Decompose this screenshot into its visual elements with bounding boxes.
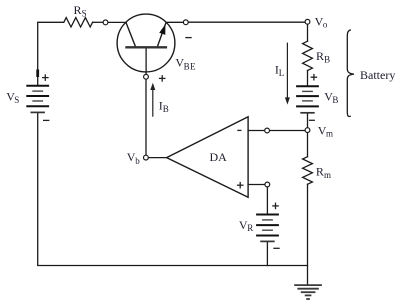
svg-text:m: m xyxy=(324,170,331,180)
svg-text:b: b xyxy=(135,156,140,166)
svg-text:Battery: Battery xyxy=(360,68,395,82)
svg-text:S: S xyxy=(14,95,19,105)
svg-text:R: R xyxy=(74,3,82,17)
svg-text:BE: BE xyxy=(184,61,196,71)
svg-text:L: L xyxy=(279,68,285,78)
svg-text:o: o xyxy=(323,20,328,30)
svg-text:B: B xyxy=(332,95,338,105)
svg-text:R: R xyxy=(247,223,253,233)
svg-text:DA: DA xyxy=(210,150,228,164)
svg-text:S: S xyxy=(82,9,87,19)
svg-text:m: m xyxy=(326,129,333,139)
svg-text:R: R xyxy=(316,49,324,63)
svg-text:B: B xyxy=(163,104,169,114)
svg-text:B: B xyxy=(324,55,330,65)
svg-text:R: R xyxy=(316,164,324,178)
